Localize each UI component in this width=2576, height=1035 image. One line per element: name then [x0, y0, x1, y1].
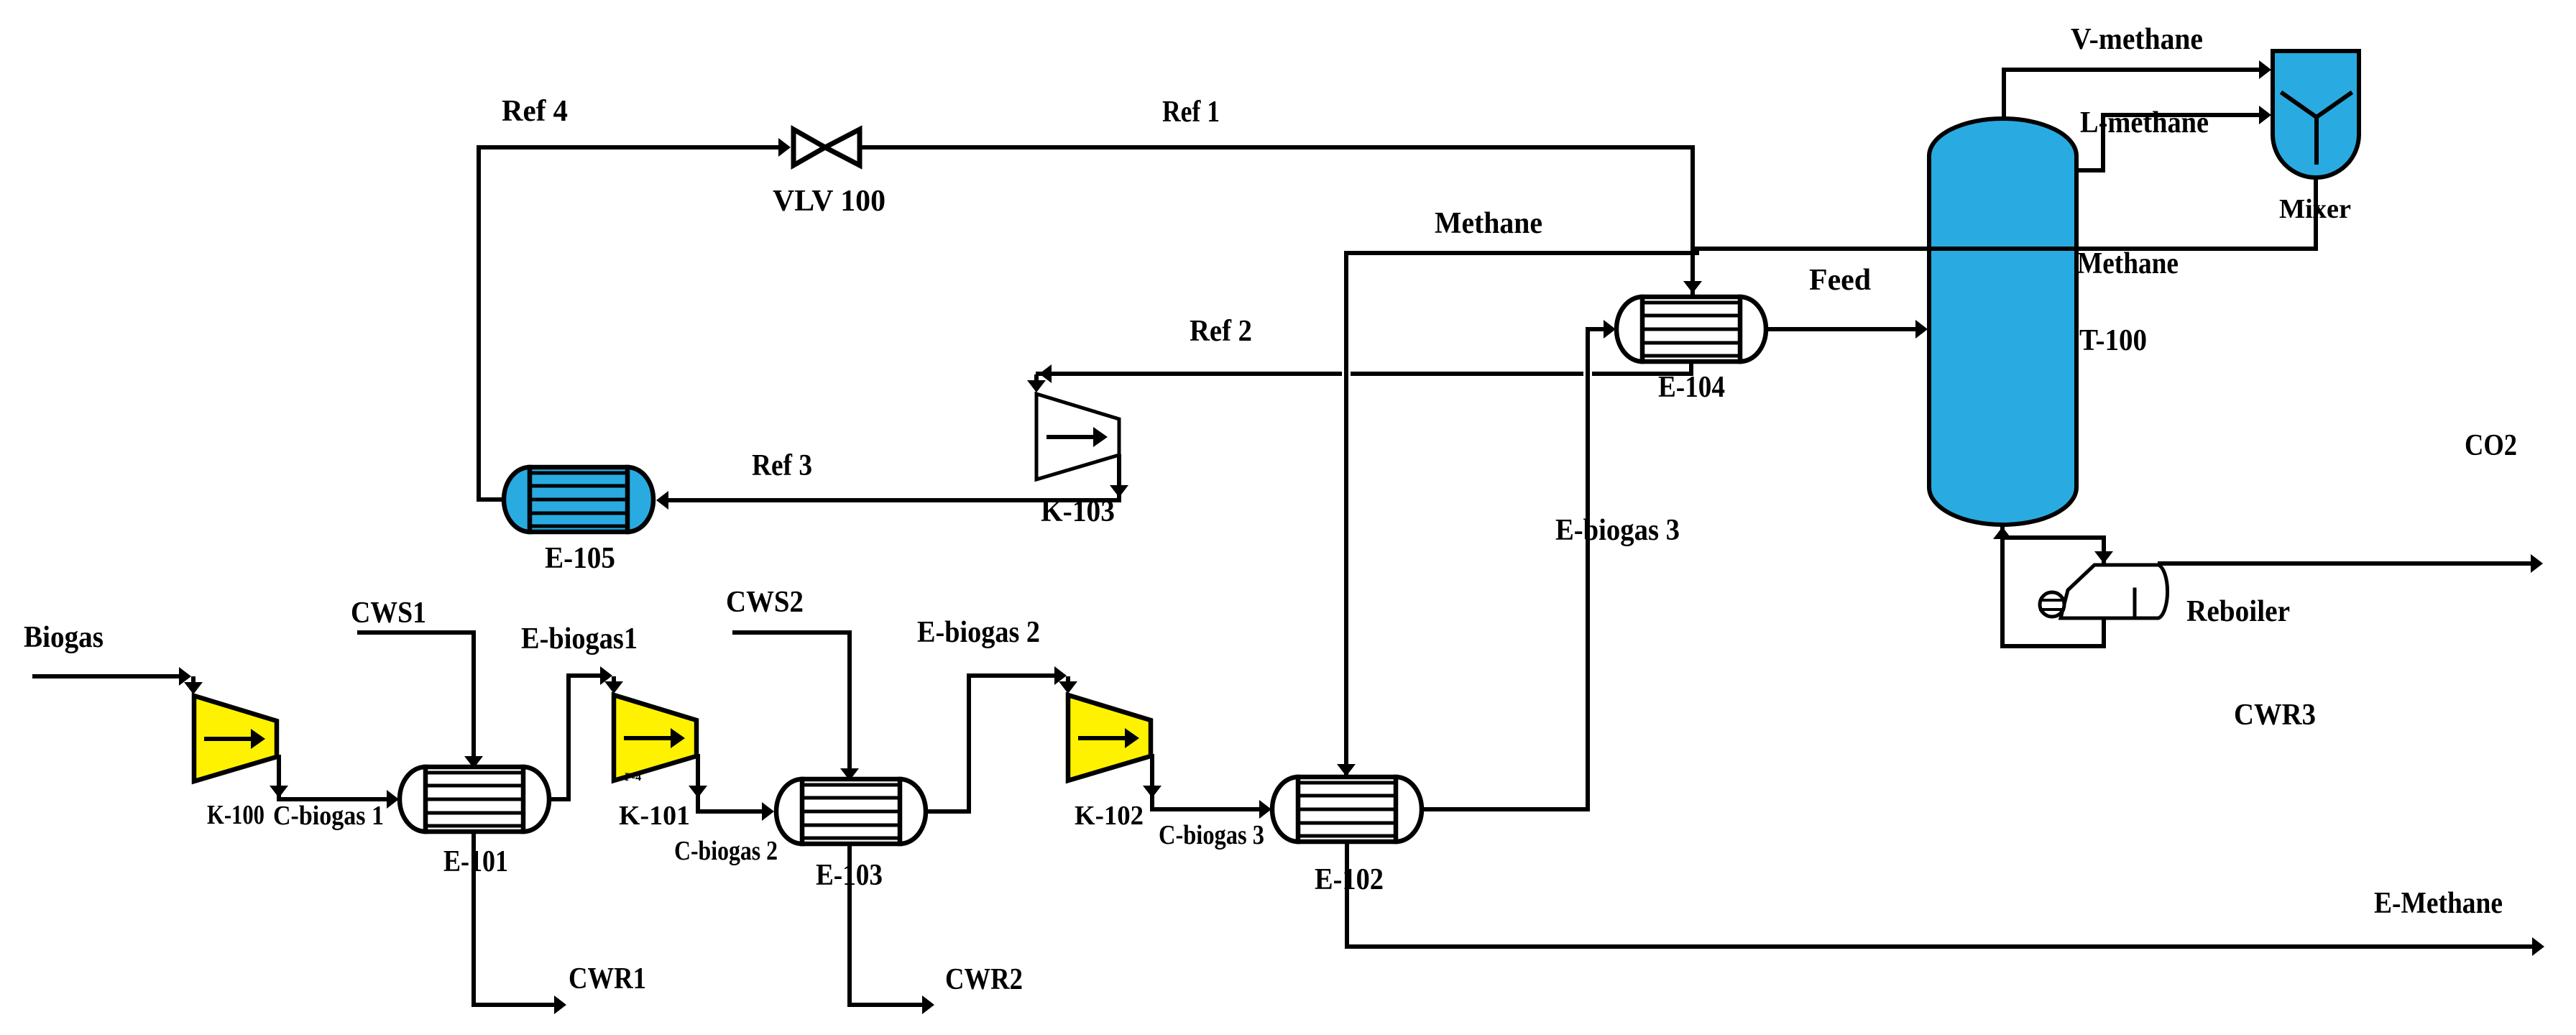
- svg-text:Methane: Methane: [2077, 247, 2179, 280]
- svg-text:E-biogas1: E-biogas1: [521, 622, 638, 655]
- svg-text:C-biogas 1: C-biogas 1: [273, 801, 384, 831]
- svg-text:CWR2: CWR2: [945, 963, 1023, 996]
- svg-text:Mixer: Mixer: [2279, 194, 2351, 224]
- svg-text:Ref 3: Ref 3: [752, 449, 812, 482]
- svg-text:L-methane: L-methane: [2080, 106, 2209, 139]
- svg-text:E-104: E-104: [1658, 371, 1725, 404]
- svg-text:CWS1: CWS1: [351, 597, 426, 630]
- svg-text:Reboiler: Reboiler: [2186, 595, 2290, 628]
- svg-text:CWR1: CWR1: [569, 962, 646, 995]
- svg-text:E-101: E-101: [443, 845, 508, 878]
- svg-text:Methane: Methane: [1435, 207, 1542, 240]
- svg-text:Biogas: Biogas: [24, 621, 103, 654]
- svg-text:E-Methane: E-Methane: [2374, 887, 2503, 920]
- svg-text:CWS2: CWS2: [726, 586, 804, 619]
- svg-text:K-100: K-100: [207, 800, 264, 830]
- svg-text:C-biogas 2: C-biogas 2: [674, 836, 778, 866]
- svg-text:K-103: K-103: [1041, 495, 1115, 528]
- svg-text:K-101: K-101: [619, 801, 690, 831]
- svg-text:Ref 4: Ref 4: [502, 95, 568, 128]
- svg-text:V-methane: V-methane: [2071, 23, 2203, 56]
- svg-text:E-105: E-105: [545, 542, 615, 575]
- svg-text:Ref 1: Ref 1: [1162, 96, 1220, 129]
- svg-text:P-4: P-4: [625, 771, 641, 783]
- svg-text:E-102: E-102: [1315, 863, 1384, 896]
- svg-text:CO2: CO2: [2465, 429, 2517, 462]
- svg-text:Feed: Feed: [1809, 264, 1871, 297]
- svg-text:CWR3: CWR3: [2234, 699, 2316, 732]
- svg-text:T-100: T-100: [2079, 324, 2147, 357]
- svg-text:E-biogas 3: E-biogas 3: [1555, 514, 1680, 547]
- svg-text:VLV 100: VLV 100: [773, 185, 885, 218]
- svg-text:K-102: K-102: [1075, 801, 1144, 831]
- svg-text:E-biogas 2: E-biogas 2: [917, 616, 1040, 649]
- svg-text:Ref 2: Ref 2: [1190, 315, 1252, 348]
- svg-text:C-biogas 3: C-biogas 3: [1159, 820, 1264, 850]
- svg-text:E-103: E-103: [816, 859, 883, 892]
